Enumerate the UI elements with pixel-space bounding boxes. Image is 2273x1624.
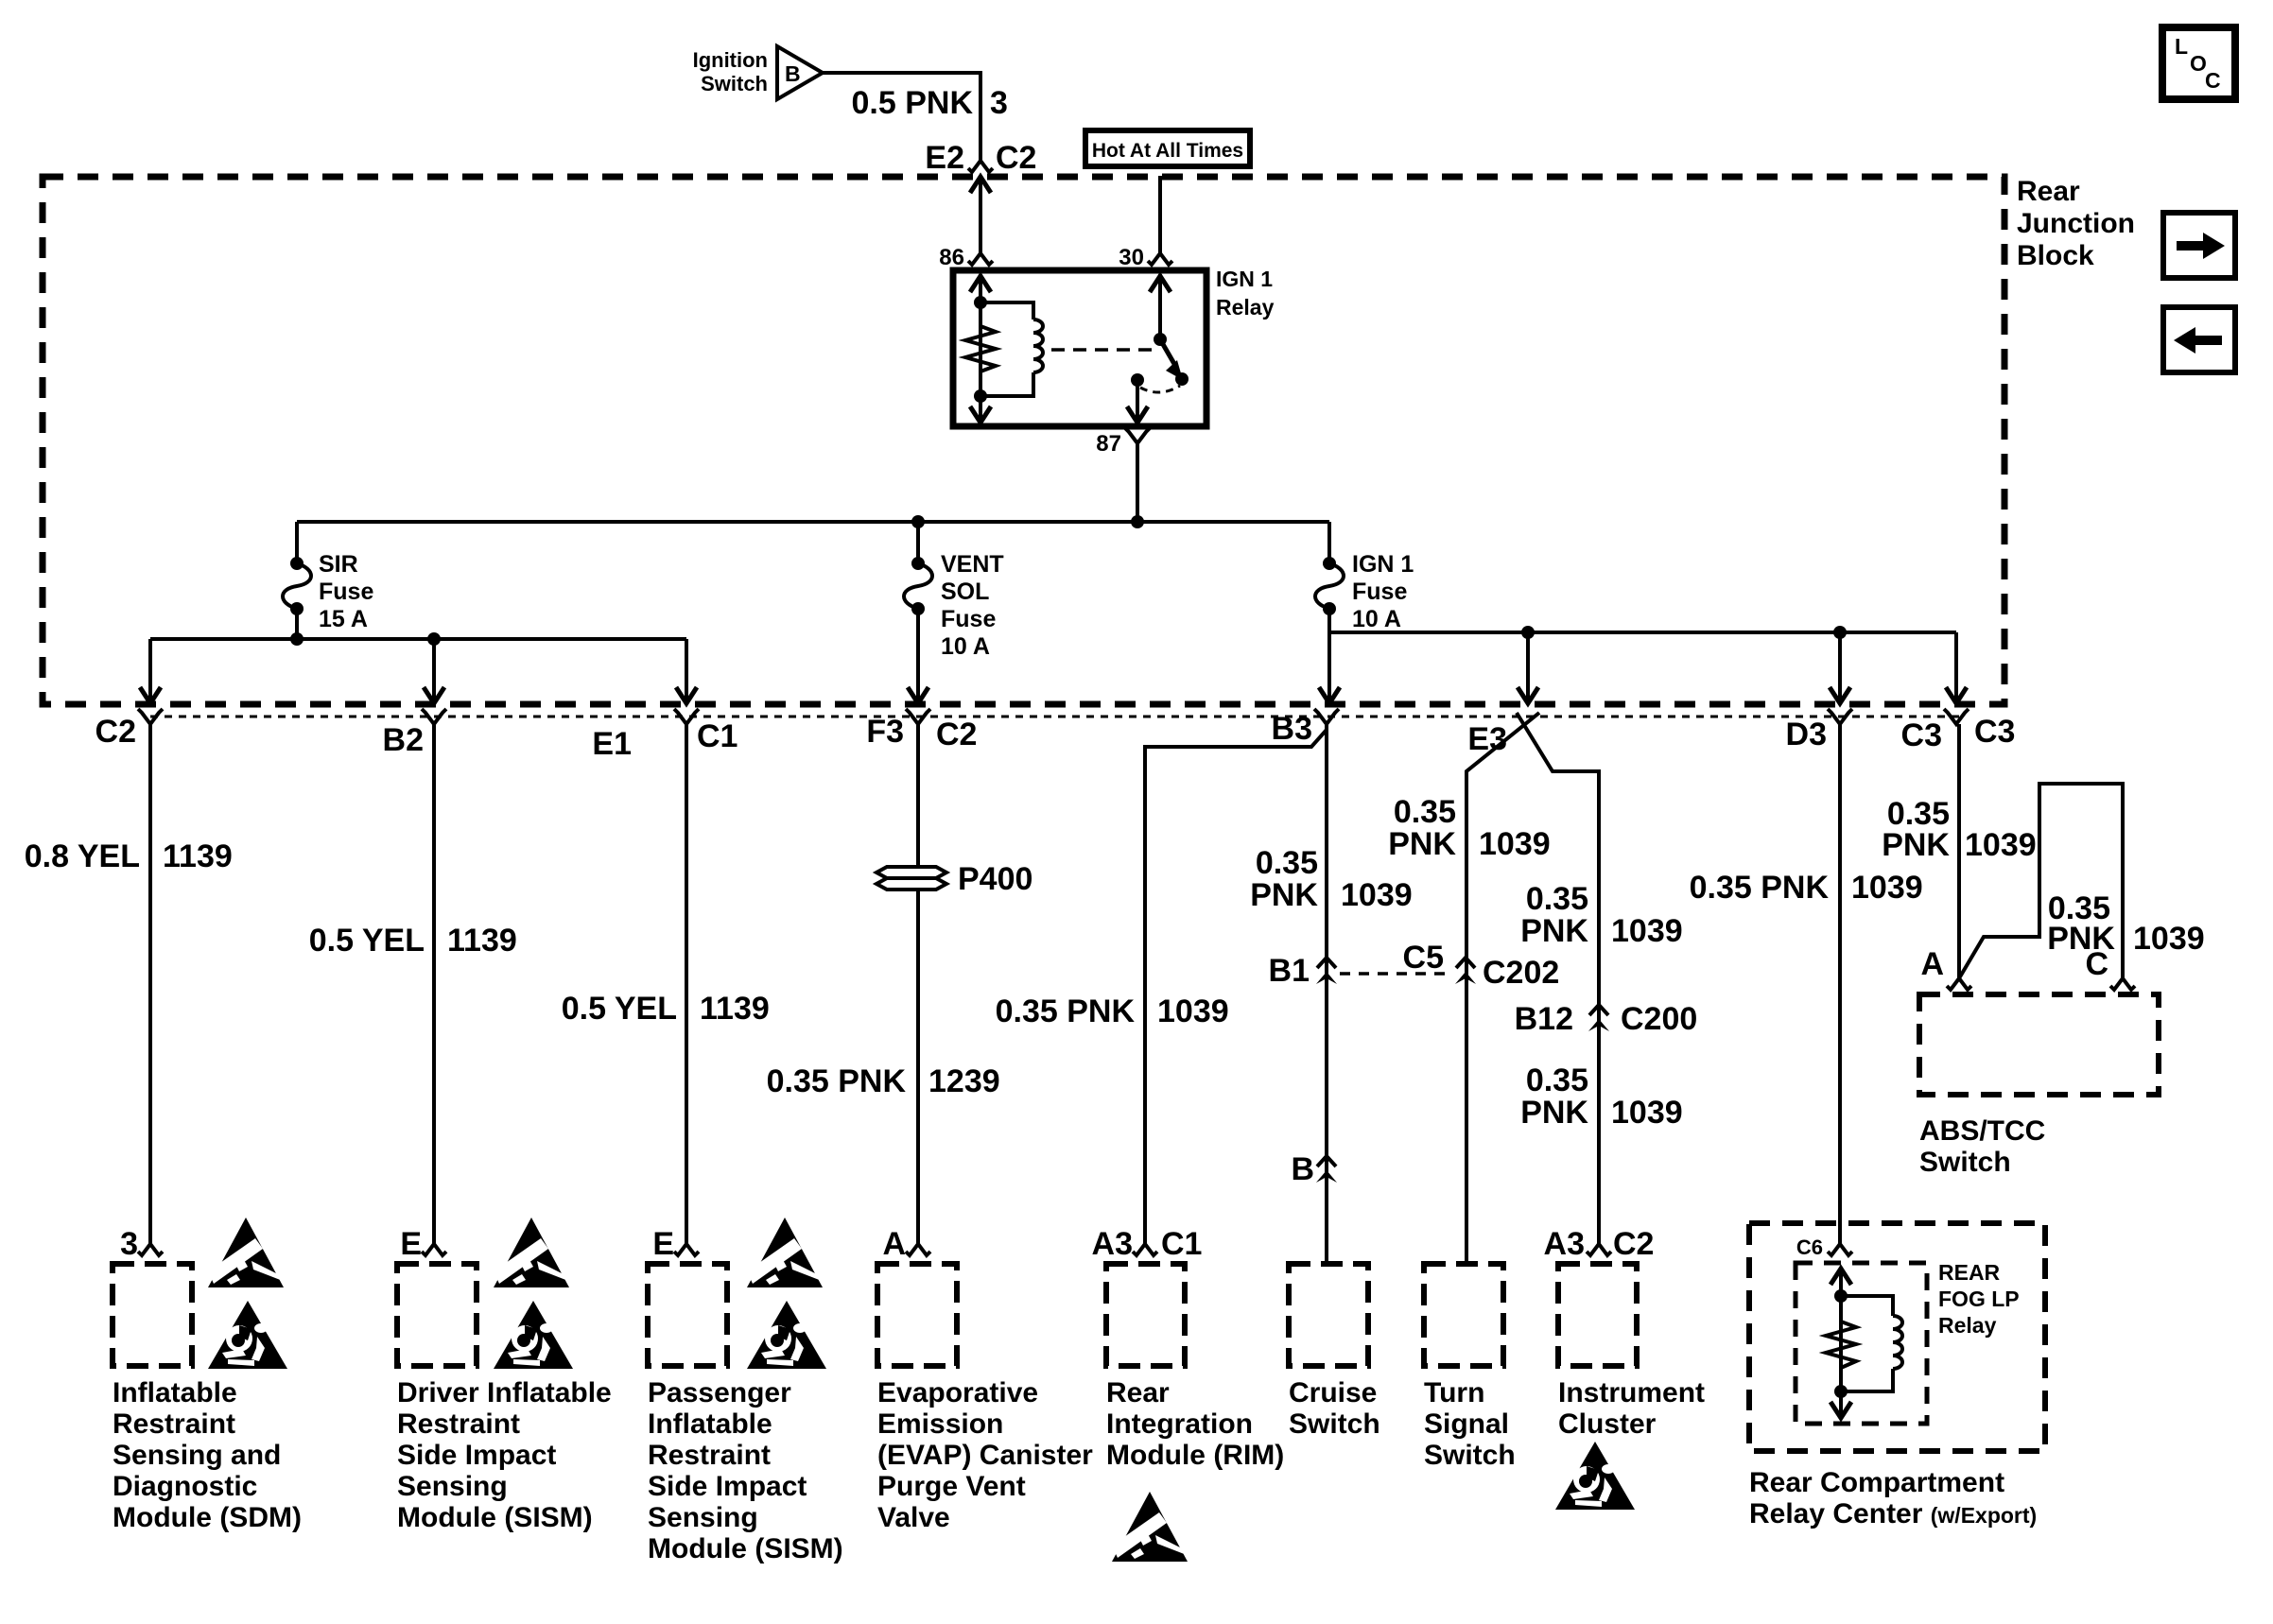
svg-text:Valve: Valve	[877, 1502, 950, 1533]
svg-text:Restraint: Restraint	[648, 1440, 771, 1471]
relay 87 internal wire	[1136, 380, 1139, 423]
interface harness fine dashed line	[150, 716, 1959, 718]
svg-text:Side Impact: Side Impact	[397, 1440, 556, 1471]
ABS/TCC pin A	[1947, 978, 1971, 990]
svg-text:ABS/TCC: ABS/TCC	[1919, 1115, 2045, 1147]
VENT SOL fuse	[916, 522, 920, 563]
SDM box	[113, 1264, 192, 1366]
IGN1 distribution bus	[1329, 631, 1956, 634]
wire E3 split	[1466, 713, 1539, 1264]
ESD warning triangle	[747, 1218, 823, 1287]
wire 0.5 YEL 1139 to driver SISM	[432, 724, 436, 1244]
connector E2/C2	[968, 161, 993, 172]
svg-text:10 A: 10 A	[1352, 606, 1401, 632]
wire 0.5 YEL 1139 to passenger SISM	[685, 724, 688, 1244]
svg-text:10 A: 10 A	[941, 633, 990, 660]
svg-text:(EVAP) Canister: (EVAP) Canister	[877, 1440, 1093, 1471]
airbag warning triangle	[1555, 1442, 1635, 1510]
svg-text:B3: B3	[1272, 711, 1312, 747]
svg-text:Fuse: Fuse	[1352, 579, 1407, 605]
svg-text:Sensing: Sensing	[648, 1502, 758, 1533]
svg-text:Rear: Rear	[2017, 176, 2080, 207]
drop to EVAP F3	[908, 687, 928, 703]
svg-text:Fuse: Fuse	[941, 606, 996, 632]
svg-text:Driver Inflatable: Driver Inflatable	[397, 1377, 612, 1408]
connector D3	[1828, 709, 1852, 724]
svg-text:FOG LP: FOG LP	[1938, 1287, 2020, 1311]
svg-text:A: A	[882, 1226, 906, 1262]
EVAP box	[877, 1264, 957, 1366]
svg-text:B2: B2	[383, 722, 424, 758]
svg-text:P400: P400	[958, 861, 1032, 897]
svg-text:B: B	[1291, 1151, 1314, 1187]
junction	[974, 389, 987, 403]
svg-text:A: A	[1920, 946, 1944, 982]
svg-text:Rear Compartment: Rear Compartment	[1749, 1467, 2004, 1498]
svg-text:Sensing and: Sensing and	[113, 1440, 281, 1471]
wire 0.5 PNK 3 from ignition switch	[823, 73, 980, 161]
svg-text:1039: 1039	[1851, 870, 1923, 906]
SIR fuse	[295, 522, 299, 563]
svg-text:PNK: PNK	[1520, 1095, 1588, 1131]
wire 0.35 PNK 1039 to rear fog relay	[1838, 724, 1842, 1244]
ESD warning triangle	[1112, 1492, 1188, 1562]
wire into junction block to relay pin 86	[979, 177, 982, 253]
junction	[911, 515, 925, 528]
svg-text:Restraint: Restraint	[113, 1408, 235, 1440]
EVAP pin A	[906, 1244, 930, 1255]
svg-text:0.35: 0.35	[1256, 845, 1318, 881]
wire 0.35 PNK 1039 to ABS/TCC A	[1957, 724, 1961, 978]
wire from B+ to relay pin 30	[1158, 176, 1162, 253]
svg-text:Evaporative: Evaporative	[877, 1377, 1038, 1408]
contact NO	[1175, 372, 1189, 386]
svg-text:0.35 PNK: 0.35 PNK	[996, 993, 1136, 1029]
switch pivot	[1154, 333, 1167, 346]
relay switch arm	[1160, 339, 1174, 364]
IGN 1 fuse	[1327, 522, 1331, 563]
connector B	[1316, 1156, 1337, 1183]
svg-text:1039: 1039	[1965, 827, 2037, 863]
svg-text:0.35 PNK: 0.35 PNK	[767, 1063, 907, 1099]
svg-text:C1: C1	[1161, 1226, 1202, 1262]
ABS/TCC pin C	[2110, 978, 2135, 990]
svg-text:C6: C6	[1796, 1235, 1823, 1259]
svg-text:VENT: VENT	[941, 551, 1004, 578]
connector C3/C3	[1944, 709, 1969, 724]
svg-text:Signal: Signal	[1424, 1408, 1509, 1440]
bus from relay 87	[297, 520, 1329, 524]
wire 0.35 PNK 1239 to EVAP	[916, 724, 920, 1244]
svg-text:Instrument: Instrument	[1558, 1377, 1705, 1408]
rear fog relay coil wire	[1839, 1267, 1843, 1418]
connector E1/C1	[674, 709, 699, 724]
rear fog relay coil	[1841, 1296, 1893, 1316]
svg-text:Emission: Emission	[877, 1408, 1003, 1440]
svg-text:C202: C202	[1483, 955, 1559, 991]
svg-text:C1: C1	[697, 718, 737, 754]
svg-text:1039: 1039	[1479, 826, 1551, 862]
svg-text:Module (SISM): Module (SISM)	[397, 1502, 593, 1533]
svg-text:0.35: 0.35	[1394, 794, 1456, 830]
svg-text:0.8 YEL: 0.8 YEL	[25, 838, 140, 874]
airbag warning triangle	[747, 1301, 826, 1369]
instrument cluster pin A3/C2	[1587, 1244, 1611, 1255]
rear compartment relay center box	[1749, 1223, 2045, 1451]
drop to SISM E1/C1	[685, 639, 688, 700]
svg-text:Junction: Junction	[2017, 208, 2135, 239]
svg-text:PNK: PNK	[1388, 826, 1456, 862]
svg-text:Relay Center (w/Export): Relay Center (w/Export)	[1749, 1498, 2037, 1529]
connector B2	[422, 709, 446, 724]
relay socket 86	[968, 253, 993, 265]
relay contact travel dashed arc	[1140, 386, 1180, 392]
contact 87	[1131, 373, 1144, 387]
svg-text:C3: C3	[1901, 717, 1942, 753]
svg-text:Block: Block	[2017, 240, 2094, 271]
junction	[290, 632, 304, 646]
svg-text:Turn: Turn	[1424, 1377, 1484, 1408]
svg-text:Restraint: Restraint	[397, 1408, 520, 1440]
branch wire to ABS/TCC C	[1959, 784, 2123, 978]
svg-text:1039: 1039	[1157, 993, 1229, 1029]
connector F3/C2	[906, 709, 930, 724]
relay coil	[980, 302, 1033, 320]
svg-text:Relay: Relay	[1938, 1313, 1997, 1338]
airbag warning triangle	[494, 1301, 573, 1369]
SIR distribution bus	[150, 637, 686, 641]
IGN 1 relay box	[953, 270, 1206, 426]
relay coil-side pin 86 internal wire	[979, 274, 982, 423]
rear fog relay resistor	[1826, 1322, 1856, 1368]
passenger SISM box	[648, 1264, 727, 1366]
ignition switch symbol B	[777, 46, 823, 99]
RFC pin C6	[1828, 1244, 1852, 1255]
svg-text:Switch: Switch	[1289, 1408, 1380, 1440]
svg-text:C: C	[2205, 68, 2221, 93]
drop to B3	[1319, 687, 1340, 703]
svg-text:Purge Vent: Purge Vent	[877, 1471, 1026, 1502]
svg-text:REAR: REAR	[1938, 1260, 2001, 1285]
rear fog lp relay box	[1796, 1263, 1927, 1424]
svg-text:F3: F3	[866, 714, 904, 750]
svg-text:E1: E1	[592, 726, 632, 762]
svg-text:C2: C2	[996, 140, 1036, 176]
svg-text:IGN 1: IGN 1	[1216, 267, 1273, 291]
dashed link B1 to C5	[1340, 972, 1452, 976]
svg-text:Integration: Integration	[1106, 1408, 1253, 1440]
back page arrow box	[2163, 307, 2235, 372]
svg-text:A3: A3	[1544, 1226, 1585, 1262]
svg-text:A3: A3	[1092, 1226, 1133, 1262]
driver SISM pin E	[422, 1244, 446, 1255]
connector B3	[1314, 709, 1339, 724]
arrow into block	[970, 177, 991, 193]
airbag warning triangle	[208, 1301, 287, 1369]
svg-text:C5: C5	[1403, 940, 1444, 976]
svg-text:86: 86	[939, 245, 964, 270]
svg-text:Fuse: Fuse	[319, 579, 373, 605]
junction	[1521, 626, 1535, 639]
drop to E3	[1518, 687, 1538, 703]
svg-text:C200: C200	[1621, 1001, 1697, 1037]
Hot At All Times power tag	[1085, 130, 1250, 166]
Rear Junction Block dashed boundary	[43, 177, 2004, 704]
svg-text:Switch: Switch	[701, 72, 768, 95]
turn signal switch box	[1424, 1264, 1503, 1366]
svg-text:Side Impact: Side Impact	[648, 1471, 807, 1502]
svg-text:PNK: PNK	[1882, 827, 1950, 863]
svg-text:1239: 1239	[928, 1063, 1000, 1099]
wire 0.8 YEL 1139 to SDM	[148, 724, 152, 1244]
svg-text:Hot At All Times: Hot At All Times	[1092, 140, 1243, 162]
drop to C3	[1946, 687, 1967, 703]
svg-text:0.5 YEL: 0.5 YEL	[309, 923, 425, 959]
relay switch pin 30 internal wire	[1158, 274, 1162, 339]
cruise switch box	[1289, 1264, 1368, 1366]
svg-text:Cluster: Cluster	[1558, 1408, 1657, 1440]
svg-text:Switch: Switch	[1919, 1147, 2011, 1178]
svg-text:L: L	[2175, 34, 2188, 59]
svg-text:C2: C2	[936, 717, 977, 752]
drop to SISM B2	[432, 639, 436, 700]
relay actuation dashed link	[1051, 348, 1152, 352]
svg-text:1139: 1139	[163, 838, 233, 874]
passenger SISM pin E	[674, 1244, 699, 1255]
relay socket 30	[1148, 253, 1172, 265]
svg-text:C: C	[2085, 946, 2108, 982]
svg-text:C2: C2	[1613, 1226, 1654, 1262]
svg-text:Diagnostic: Diagnostic	[113, 1471, 257, 1502]
svg-text:3: 3	[990, 85, 1008, 121]
instrument cluster box	[1558, 1264, 1637, 1366]
RIM pin A3/C1	[1133, 1244, 1157, 1255]
svg-text:0.35 PNK: 0.35 PNK	[1690, 870, 1830, 906]
relay socket 87	[1125, 428, 1150, 443]
ESD warning triangle	[494, 1218, 569, 1287]
LOC page marker box	[2162, 27, 2235, 99]
svg-text:1039: 1039	[1341, 877, 1413, 913]
svg-text:3: 3	[120, 1226, 138, 1262]
svg-text:SIR: SIR	[319, 551, 358, 578]
junction	[974, 296, 987, 309]
svg-text:Inflatable: Inflatable	[648, 1408, 772, 1440]
svg-text:PNK: PNK	[1520, 913, 1588, 949]
connector C2	[138, 709, 163, 724]
svg-text:87: 87	[1096, 431, 1121, 457]
svg-text:1139: 1139	[447, 923, 517, 959]
wire 87 to fuse bus	[1136, 443, 1139, 522]
ESD warning triangle	[208, 1218, 284, 1287]
splice P400	[876, 867, 946, 890]
wire 0.35 PNK 1039 to cruise switch	[1325, 724, 1328, 1264]
junction	[427, 632, 441, 646]
svg-text:Cruise: Cruise	[1289, 1377, 1377, 1408]
svg-text:C3: C3	[1974, 714, 2015, 750]
svg-text:Rear: Rear	[1106, 1377, 1170, 1408]
connector B1	[1316, 958, 1337, 984]
drop to SDM C2	[148, 639, 152, 700]
driver SISM box	[397, 1264, 477, 1366]
svg-text:15 A: 15 A	[319, 606, 368, 632]
svg-text:Relay: Relay	[1216, 295, 1275, 320]
svg-text:E: E	[652, 1226, 674, 1262]
svg-text:Ignition: Ignition	[693, 48, 768, 72]
svg-text:C2: C2	[95, 714, 136, 750]
svg-text:Inflatable: Inflatable	[113, 1377, 237, 1408]
svg-text:0.5 YEL: 0.5 YEL	[562, 991, 677, 1027]
SDM pin 3	[138, 1244, 163, 1255]
svg-text:Switch: Switch	[1424, 1440, 1516, 1471]
svg-text:1039: 1039	[1611, 913, 1683, 949]
svg-text:IGN 1: IGN 1	[1352, 551, 1414, 578]
svg-text:0.35: 0.35	[1526, 1063, 1588, 1098]
wire 0.35 PNK 1039 to RIM	[1145, 730, 1327, 1244]
drop to D3	[1830, 687, 1850, 703]
ABS/TCC switch box	[1919, 994, 2159, 1095]
svg-text:PNK: PNK	[1250, 877, 1318, 913]
svg-text:D3: D3	[1786, 717, 1827, 752]
svg-text:E: E	[400, 1226, 422, 1262]
RIM box	[1106, 1264, 1185, 1366]
svg-text:B12: B12	[1515, 1001, 1573, 1037]
svg-text:SOL: SOL	[941, 579, 989, 605]
junction	[1833, 626, 1847, 639]
svg-text:1039: 1039	[2133, 921, 2205, 957]
svg-text:0.35: 0.35	[1526, 881, 1588, 917]
connector C5	[1455, 958, 1476, 984]
svg-text:Module (SISM): Module (SISM)	[648, 1533, 843, 1564]
svg-text:E2: E2	[925, 140, 964, 176]
svg-text:B: B	[785, 61, 801, 86]
junction	[1131, 515, 1144, 528]
svg-text:B1: B1	[1269, 953, 1310, 989]
forward page arrow box	[2163, 213, 2235, 278]
relay resistor	[965, 326, 996, 371]
connector B12/C200	[1588, 1005, 1609, 1031]
svg-text:0.5 PNK: 0.5 PNK	[852, 85, 974, 121]
svg-text:30: 30	[1119, 245, 1144, 270]
svg-text:Module (SDM): Module (SDM)	[113, 1502, 302, 1533]
svg-text:1039: 1039	[1611, 1095, 1683, 1131]
svg-text:Module (RIM): Module (RIM)	[1106, 1440, 1284, 1471]
svg-text:1139: 1139	[700, 991, 770, 1027]
svg-text:Passenger: Passenger	[648, 1377, 791, 1408]
svg-text:Sensing: Sensing	[397, 1471, 508, 1502]
svg-text:E3: E3	[1467, 721, 1507, 757]
